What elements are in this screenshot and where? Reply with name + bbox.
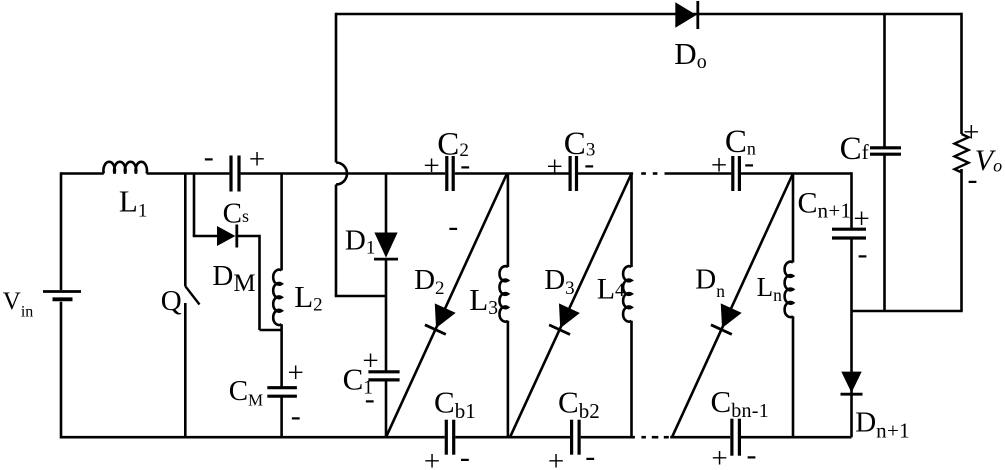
wire top output rail — [336, 13, 962, 16]
svg-text:CM: CM — [229, 375, 263, 409]
wire feedback drop upper — [335, 13, 338, 163]
svg-text:Cb2: Cb2 — [558, 385, 600, 423]
svg-text:L1: L1 — [119, 183, 147, 221]
wire Ln top — [792, 174, 795, 263]
inductor L4 — [623, 266, 631, 321]
svg-text:Do: Do — [674, 36, 706, 73]
wire right rail upper — [960, 13, 963, 134]
svg-text:-: - — [460, 148, 470, 181]
wire L2 top — [280, 174, 283, 271]
capacitor Cb1 — [445, 420, 448, 455]
wire Cf top drop — [883, 14, 886, 148]
wire left rail lower — [60, 302, 63, 439]
svg-text:Dn+1: Dn+1 — [855, 407, 910, 443]
wire main gap to Cn — [665, 172, 732, 175]
wire bottom rail dashed gap — [641, 436, 646, 439]
wire feedback drop lower — [335, 185, 338, 297]
svg-text:+: + — [423, 150, 439, 182]
wire crossover hop — [336, 163, 347, 185]
wire main left of L1 — [61, 172, 104, 175]
svg-text:-: - — [585, 440, 595, 470]
svg-text:+: + — [362, 345, 378, 377]
wire bottom rail Cbn-1 to end — [741, 436, 852, 439]
svg-text:D3: D3 — [544, 264, 574, 299]
capacitor C1 — [368, 370, 399, 373]
wire DM cathode to L2 bottom — [237, 235, 260, 238]
inductor L3 — [499, 266, 507, 321]
capacitor Cn+1 — [832, 228, 866, 231]
diode Do — [675, 2, 696, 28]
wire Dn+1 branch — [850, 311, 853, 437]
wire L3 bottom — [507, 321, 510, 437]
svg-text:-: - — [365, 383, 375, 416]
svg-text:+: + — [249, 144, 265, 176]
wire bottom rail gap to Cbn-1 — [670, 436, 730, 439]
diode D2 — [435, 303, 456, 328]
diode Dn diagonal — [672, 174, 793, 438]
battery Vin short plate — [53, 297, 73, 301]
wire Q branch upper — [184, 174, 187, 287]
wire C1 bottom — [385, 380, 388, 437]
wire right rail lower — [960, 169, 963, 311]
svg-text:-: - — [584, 148, 594, 181]
capacitor Cn — [731, 156, 734, 191]
wire output bottom horizontal — [852, 310, 963, 313]
svg-text:-: - — [204, 141, 214, 174]
wire DM anode drop — [193, 174, 196, 237]
wire main Cn to corner — [741, 172, 852, 175]
svg-text:+: + — [853, 203, 869, 235]
svg-text:-: - — [448, 210, 458, 243]
diode D2 diagonal — [386, 174, 507, 438]
capacitor Cb2 — [570, 420, 573, 455]
svg-text:Vo: Vo — [975, 144, 1002, 177]
svg-text:-: - — [460, 441, 470, 470]
wire bottom rail Cb1-Cb2 — [455, 436, 570, 439]
wire feedback to D1 branch — [335, 295, 386, 298]
svg-text:Cb1: Cb1 — [434, 385, 476, 423]
inductor L2 — [273, 270, 281, 325]
wire D1 to C1 — [385, 260, 388, 372]
capacitor Cs — [229, 156, 232, 192]
svg-text:D2: D2 — [414, 264, 444, 299]
wire bottom rail Cb2 to gap — [581, 436, 635, 439]
svg-text:-: - — [858, 238, 868, 271]
svg-text:-: - — [291, 400, 301, 433]
diode Dn — [721, 303, 742, 328]
svg-text:Q: Q — [161, 285, 182, 317]
svg-text:Dn: Dn — [695, 264, 725, 302]
wire bottom rail left — [61, 436, 445, 439]
wire L2 bottom to CM — [280, 324, 283, 388]
wire Q branch lower — [184, 303, 187, 437]
svg-text:-: - — [744, 146, 754, 179]
svg-text:+: + — [288, 357, 304, 389]
diode Dn+1 — [841, 372, 861, 393]
diode D1 — [374, 233, 397, 258]
svg-text:-: - — [747, 438, 757, 470]
diode DM — [217, 226, 235, 246]
wire Cn+1 bottom — [850, 238, 853, 311]
svg-text:DM: DM — [212, 260, 255, 297]
battery Vin long plate — [43, 290, 81, 293]
svg-text:Cf: Cf — [840, 131, 869, 167]
wire L3 top — [507, 174, 510, 268]
svg-text:D1: D1 — [345, 225, 375, 259]
capacitor C2 — [445, 156, 448, 191]
svg-text:L2: L2 — [294, 279, 322, 315]
capacitor C3 — [568, 156, 571, 191]
wire main C2 to C3 — [455, 172, 569, 175]
wire CM bottom — [280, 396, 283, 437]
wire L4 top — [630, 174, 633, 268]
svg-text:L4: L4 — [597, 272, 625, 305]
diode D3 — [559, 303, 580, 328]
wire D1 branch upper — [385, 174, 388, 233]
wire Ln bottom — [792, 316, 795, 437]
svg-text:Cbn-1: Cbn-1 — [711, 384, 770, 422]
wire main dashed gap — [641, 172, 646, 175]
wire main Cs to C2 — [241, 172, 446, 175]
svg-text:+: + — [547, 151, 563, 183]
switch Q blade — [185, 286, 199, 304]
svg-text:Cn+1: Cn+1 — [798, 186, 852, 222]
wire main C3 to gap — [578, 172, 633, 175]
wire L4 bottom — [630, 321, 633, 437]
capacitor Cbn-1 — [730, 419, 733, 456]
diode D3 diagonal — [510, 174, 632, 438]
svg-text:+: + — [548, 446, 564, 470]
svg-text:Ln: Ln — [757, 272, 783, 305]
svg-text:+: + — [711, 443, 727, 470]
svg-text:-: - — [968, 163, 978, 196]
svg-text:Vin: Vin — [3, 288, 34, 320]
svg-text:L3: L3 — [469, 282, 498, 319]
inductor Ln — [785, 262, 793, 317]
wire Cf bottom — [883, 154, 886, 311]
wire left rail upper — [60, 172, 63, 290]
resistor load for Vo — [955, 134, 969, 172]
wire Cn+1 top drop — [850, 172, 853, 229]
svg-text:+: + — [424, 446, 440, 470]
inductor L1 — [103, 162, 147, 174]
wire main L1 to Cs — [147, 172, 230, 175]
capacitor Cf — [870, 146, 901, 149]
capacitor CM — [267, 386, 297, 389]
svg-text:+: + — [711, 150, 727, 182]
